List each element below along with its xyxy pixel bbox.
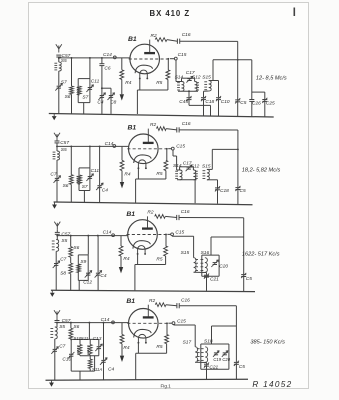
capacitor C5 [241, 273, 252, 292]
svg-text:C7: C7 [50, 171, 56, 177]
svg-text:C5: C5 [240, 188, 246, 194]
svg-text:S7: S7 [61, 79, 67, 85]
svg-text:S15: S15 [202, 75, 211, 81]
wire C26/C25 box [252, 60, 265, 99]
svg-text:S5: S5 [61, 147, 67, 153]
coil S15 [202, 163, 211, 180]
coil S15 [181, 250, 198, 272]
node C14 [101, 317, 115, 324]
svg-text:B1: B1 [126, 211, 135, 218]
svg-text:S6: S6 [65, 94, 71, 100]
svg-text:B1: B1 [126, 298, 135, 305]
capacitor C16 [177, 121, 191, 133]
tube B1 heater and pins [129, 134, 159, 164]
capacitor C5 [235, 186, 246, 205]
wire antenna to grid [56, 318, 128, 323]
wire to padder box [89, 58, 91, 79]
wire C16 to output [179, 218, 244, 275]
label 12-8,5 Mc/s [256, 75, 287, 81]
resistor R2 [150, 122, 166, 131]
capacitor C5 [234, 361, 245, 380]
capacitor C57 [55, 232, 71, 238]
svg-text:C19: C19 [213, 357, 221, 362]
caption Fig.1 [161, 384, 172, 389]
capacitor C21 [194, 272, 220, 291]
coil S11A [88, 356, 102, 372]
svg-text:S14: S14 [175, 75, 184, 81]
trimmer C4 [97, 88, 105, 114]
wire box left edge [70, 338, 72, 353]
svg-text:R5: R5 [156, 171, 162, 177]
resistor R5 [156, 322, 168, 353]
wire C16 to output [179, 130, 239, 187]
svg-text:C15: C15 [175, 230, 184, 236]
svg-text:B1: B1 [128, 125, 137, 132]
ground bus 1 [49, 114, 274, 118]
wire C16 to output [180, 41, 239, 100]
svg-text:C14: C14 [101, 317, 110, 323]
node C14 [103, 229, 115, 236]
label S8 [60, 271, 66, 277]
svg-text:S11: S11 [81, 336, 89, 341]
label 1622-517 Kc/s [242, 251, 280, 257]
trimmer C11 [86, 168, 99, 181]
wire C15 down [176, 60, 182, 82]
svg-text:R2: R2 [147, 210, 153, 216]
svg-text:C16: C16 [182, 32, 191, 38]
svg-text:C5: C5 [240, 100, 246, 106]
wire antenna to grid [56, 230, 127, 237]
svg-text:Fig.1: Fig.1 [161, 384, 172, 389]
svg-text:C18: C18 [220, 188, 229, 194]
svg-text:C14: C14 [105, 141, 114, 147]
coil S8 [69, 257, 73, 290]
node C15 [167, 230, 184, 236]
capacitor C25 [262, 98, 275, 117]
node C14 [103, 52, 116, 59]
padder row bottom [80, 354, 99, 357]
wire branch S6 [71, 58, 73, 86]
svg-text:S15: S15 [202, 163, 211, 169]
svg-text:R5: R5 [156, 344, 162, 350]
title BX 410 Z [150, 9, 191, 18]
svg-text:385- 150 Kc/s: 385- 150 Kc/s [250, 340, 285, 346]
tube B1 heater and pins [130, 44, 160, 74]
svg-text:C7: C7 [60, 256, 66, 262]
svg-text:C57: C57 [60, 140, 69, 146]
svg-text:C5: C5 [246, 276, 252, 282]
capacitor C18 [207, 180, 229, 204]
svg-text:C21: C21 [209, 364, 218, 370]
svg-text:C6: C6 [104, 65, 110, 71]
coil S6 [69, 323, 80, 339]
capacitor C45 [179, 91, 191, 105]
resistor R5 [156, 58, 170, 90]
antenna [56, 44, 62, 52]
ground 4 [49, 380, 54, 387]
svg-text:C25: C25 [266, 101, 275, 107]
sheet mark I [293, 8, 295, 17]
svg-text:S5: S5 [61, 58, 67, 64]
svg-text:R5: R5 [156, 80, 162, 86]
coil S5 [53, 146, 67, 160]
trimmer C8 [108, 93, 117, 114]
capacitor C57 [55, 318, 71, 324]
svg-text:R2: R2 [151, 33, 157, 39]
tube B1 label [128, 125, 137, 132]
svg-text:C11: C11 [91, 79, 100, 85]
svg-text:BX 410 Z: BX 410 Z [150, 9, 191, 18]
wire to padder box [87, 236, 89, 255]
coil S7 [77, 175, 88, 190]
coil S14 [173, 163, 182, 180]
padder box output [201, 344, 229, 369]
svg-text:C4: C4 [97, 99, 103, 105]
wire anode to C16 [166, 129, 177, 130]
coil S6 [69, 236, 80, 258]
coil S14 [175, 75, 184, 92]
svg-text:C57: C57 [61, 232, 70, 238]
svg-text:S6: S6 [73, 245, 79, 251]
trimmer C4 [100, 323, 114, 380]
padder box output [202, 255, 219, 276]
node C14 [105, 141, 116, 147]
svg-text:C4: C4 [108, 366, 114, 372]
antenna [54, 310, 60, 318]
capacitor C16 [177, 298, 190, 309]
svg-text:C15: C15 [176, 143, 185, 149]
padder box [78, 79, 90, 114]
tube B1 heater and pins [128, 220, 158, 250]
svg-text:S5: S5 [61, 238, 67, 244]
cathode return wire [136, 169, 166, 203]
resistor R2 [147, 210, 165, 219]
svg-text:C4: C4 [102, 187, 108, 193]
coil S10 [73, 336, 82, 355]
capacitor C5 [235, 98, 247, 116]
coil S5 [52, 236, 68, 252]
ground 2 [52, 202, 57, 209]
wire C15 down [174, 325, 196, 347]
wire antenna to grid [56, 143, 128, 147]
tube B1 label [126, 211, 135, 218]
padder row top [71, 339, 99, 346]
svg-text:1622- 517 Kc/s: 1622- 517 Kc/s [242, 251, 280, 257]
svg-text:C15: C15 [177, 318, 186, 324]
svg-text:R4: R4 [123, 256, 129, 262]
resistor R5 [156, 234, 167, 265]
svg-text:C20: C20 [219, 263, 228, 269]
wire anode to C16 [166, 305, 177, 306]
padder box [79, 168, 90, 203]
coil S17 [183, 340, 200, 363]
svg-text:R4: R4 [124, 172, 130, 178]
resistor R2 [149, 298, 166, 306]
node C15 [168, 143, 185, 150]
capacitor C16 [177, 32, 190, 44]
trimmer C20 [222, 351, 231, 362]
wire S14/S12 bottoms [177, 180, 197, 203]
svg-text:R 14052: R 14052 [252, 380, 292, 389]
svg-text:S6: S6 [63, 183, 69, 189]
trimmer C7 [53, 251, 67, 290]
chassis arrow R4 [120, 171, 124, 189]
svg-text:S7: S7 [82, 184, 88, 190]
svg-text:R5: R5 [156, 257, 162, 263]
capacitor C10 [216, 81, 230, 117]
coil S12 [191, 163, 200, 180]
trimmer C20 [211, 260, 228, 269]
svg-text:C18: C18 [205, 99, 214, 105]
trimmer C4 [96, 146, 108, 202]
svg-text:S9: S9 [80, 259, 86, 265]
chassis arrow R4 [120, 344, 124, 362]
node C15 [170, 52, 187, 60]
ground 3 [50, 290, 55, 297]
capacitor C57 [55, 140, 70, 146]
coil S6 [65, 86, 74, 114]
svg-text:S12: S12 [192, 75, 201, 81]
wire anode to C16 [167, 40, 177, 42]
coil S5 [54, 58, 67, 71]
antenna [54, 133, 60, 141]
capacitor C18 [201, 91, 215, 116]
svg-text:R4: R4 [123, 345, 129, 351]
svg-text:C14: C14 [103, 52, 112, 58]
resistor R4 [119, 236, 130, 262]
trimmer C19 [213, 351, 222, 362]
coil S12 [192, 75, 201, 92]
svg-text:C20: C20 [222, 357, 230, 362]
chassis arrow R4 [120, 79, 124, 100]
svg-text:S12: S12 [191, 163, 200, 169]
capacitor C21 [195, 362, 218, 379]
drawing number R 14052 [252, 380, 292, 389]
trimmer S7 [55, 71, 67, 114]
trimmer C12 [83, 271, 92, 286]
resistor R2 [151, 33, 168, 42]
wire C15 down [172, 236, 194, 258]
resistor R5 [156, 148, 167, 179]
node C15 [168, 318, 186, 324]
svg-text:C21: C21 [210, 276, 219, 282]
coil S9 [77, 259, 87, 273]
wire to padder box [89, 146, 91, 168]
wire S15 top [209, 60, 219, 81]
svg-text:C15: C15 [178, 52, 187, 58]
svg-text:C16: C16 [182, 121, 191, 127]
ground 1 [52, 114, 57, 121]
capacitor C57 [56, 53, 70, 59]
wire C15 down [173, 150, 180, 170]
svg-text:R2: R2 [150, 122, 156, 128]
antenna [54, 222, 60, 230]
wire to padder row [88, 323, 90, 340]
coil S16 [201, 250, 210, 272]
svg-text:C10: C10 [62, 356, 71, 362]
svg-text:S8: S8 [60, 271, 66, 277]
wire box to plate line [212, 326, 237, 344]
padder box 2 bottom [71, 356, 94, 380]
capacitor C10 [62, 352, 74, 371]
svg-text:S5: S5 [59, 324, 65, 330]
svg-text:18,2- 5,82 Mc/s: 18,2- 5,82 Mc/s [242, 167, 281, 173]
svg-text:C11: C11 [91, 168, 100, 174]
trimmer C13 [93, 336, 103, 356]
svg-text:C16: C16 [181, 209, 190, 215]
svg-text:S6: S6 [73, 324, 79, 330]
wire C4/C8 tops [102, 88, 111, 95]
svg-text:R4: R4 [125, 80, 131, 86]
coil S6 [63, 146, 74, 202]
tube B1 heater and pins [129, 309, 159, 339]
tube B1 label [128, 36, 137, 43]
capacitor C6 [99, 58, 110, 89]
wire C45 bottom [189, 105, 211, 116]
ground bus 2 [54, 202, 253, 205]
trimmer C7 [51, 339, 65, 380]
wire C16 to output [179, 306, 236, 362]
trimmer C11 [86, 79, 99, 92]
svg-text:C10: C10 [221, 99, 230, 105]
cathode return wire [136, 343, 167, 380]
tube B1 label [126, 298, 135, 305]
ground bus 4 [46, 379, 249, 380]
resistor R4 [120, 323, 130, 351]
capacitor C16 [177, 209, 190, 220]
svg-text:C12: C12 [83, 280, 92, 286]
svg-text:S15: S15 [181, 250, 190, 256]
coil S15 [202, 75, 211, 91]
coil S5 [50, 323, 65, 339]
wire plate decoupling [213, 59, 252, 61]
coil S11 [81, 336, 92, 355]
svg-text:B1: B1 [128, 36, 137, 43]
label 18,2-5,82 Mc/s [242, 167, 281, 173]
trimmer C4 [95, 236, 107, 291]
svg-text:C5: C5 [239, 364, 245, 370]
svg-text:C45: C45 [179, 99, 188, 105]
wire box to plate line [211, 237, 244, 255]
chassis arrow R4 [119, 256, 123, 273]
svg-text:12- 8,5 Mc/s: 12- 8,5 Mc/s [256, 75, 287, 81]
cathode return wire [137, 79, 168, 114]
svg-text:S14: S14 [173, 163, 182, 169]
svg-text:C4: C4 [100, 273, 106, 279]
svg-text:C16: C16 [181, 298, 190, 304]
svg-text:R2: R2 [149, 298, 155, 304]
svg-text:C14: C14 [103, 229, 112, 235]
resistor R4 [120, 58, 132, 86]
wire antenna to grid [58, 57, 130, 59]
wire S15 top [207, 149, 238, 169]
trimmer C17 [180, 161, 194, 172]
cathode return wire [135, 254, 166, 290]
svg-text:C26: C26 [252, 101, 261, 107]
wire anode to C16 [165, 216, 176, 217]
resistor R4 [120, 147, 131, 178]
trimmer C17 [182, 70, 195, 83]
coil S7b [77, 86, 89, 100]
svg-text:S17: S17 [183, 340, 192, 346]
svg-text:S7: S7 [82, 94, 88, 100]
label 385-150 Kc/s [250, 340, 285, 346]
wire S14/S12 bottoms [178, 90, 198, 92]
coil S18 [201, 338, 213, 362]
capacitor C26 [249, 100, 261, 117]
trimmer C7 [50, 160, 60, 202]
svg-text:C13: C13 [93, 336, 102, 342]
padder box [78, 255, 88, 291]
ground bus 3 [51, 290, 255, 291]
svg-text:C7: C7 [59, 344, 65, 350]
